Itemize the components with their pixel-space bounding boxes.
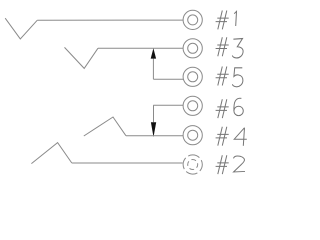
arrowhead down — [151, 122, 156, 137]
pin P2 outer ring (dashed) — [183, 155, 202, 174]
pin P5 inner ring — [188, 72, 198, 82]
label #2 — [216, 155, 245, 174]
pin P3 outer ring — [183, 39, 202, 58]
label #3 — [216, 37, 244, 58]
label #6 — [216, 98, 244, 118]
contact spring SW1 (tip contact to pin 1) — [5, 18, 37, 39]
switch arrow down (normally-open contact pin6 to pin4 wire) — [153, 105, 155, 122]
wire pin 2 — [72, 162, 183, 164]
arrowhead up — [151, 48, 156, 58]
wire pin 6 — [153, 104, 183, 106]
label #4 — [216, 127, 247, 146]
pin P1 inner ring — [188, 15, 198, 25]
pin P6 inner ring — [188, 101, 198, 111]
pin P4 inner ring — [188, 130, 198, 140]
wire pin 4 — [126, 135, 183, 137]
switch arrow up (normally-closed contact pin5 to pin3 wire) — [152, 59, 154, 80]
wire pin 1 — [37, 19, 183, 21]
contact spring SW2 (ring contact to pin 3) — [65, 47, 99, 68]
wire pin 5 — [153, 78, 183, 80]
contact spring SW4 (to pin 2) — [31, 143, 71, 164]
pin P2 inner ring (dashed) — [188, 160, 198, 170]
label #1 — [216, 11, 237, 30]
pin P5 outer ring — [183, 67, 202, 86]
pin P4 outer ring — [183, 126, 202, 145]
pin P6 outer ring — [183, 96, 202, 115]
pin P1 outer ring — [183, 10, 202, 29]
wire pin 3 — [98, 47, 183, 49]
contact spring SW3 (to pin 4) — [84, 117, 126, 136]
label #5 — [216, 67, 243, 87]
pin P3 inner ring — [188, 43, 198, 53]
